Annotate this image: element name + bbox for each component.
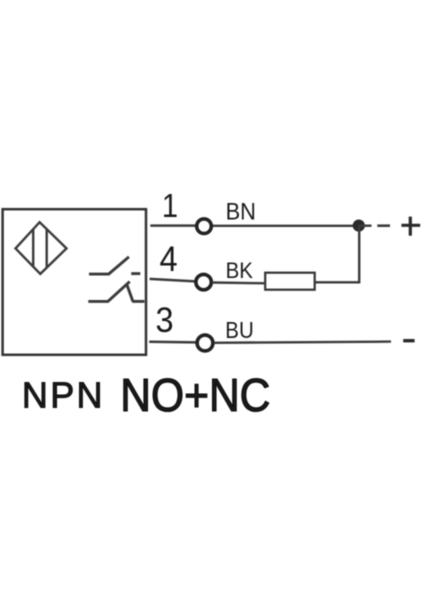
- svg-text:NPN: NPN: [22, 374, 105, 415]
- plus terminal: [401, 217, 420, 236]
- wire stub after junction: [359, 224, 372, 226]
- wire pin 3 lead: [149, 340, 196, 343]
- svg-text:4: 4: [160, 240, 178, 279]
- wire junction drop to resistor: [315, 226, 359, 283]
- NC contact switch: [88, 282, 144, 302]
- sensor box U1: [3, 209, 146, 355]
- wire BK to resistor: [212, 281, 265, 284]
- svg-text:NO+NC: NO+NC: [120, 370, 270, 421]
- wire BN: [213, 225, 359, 227]
- svg-text:BK: BK: [226, 258, 254, 283]
- svg-text:3: 3: [156, 301, 174, 340]
- wire BU: [214, 342, 391, 343]
- svg-text:BU: BU: [225, 317, 253, 343]
- junction dot: [353, 220, 365, 232]
- sensor symbol left bar: [32, 229, 34, 267]
- svg-text:BN: BN: [226, 197, 256, 224]
- svg-text:1: 1: [162, 187, 178, 224]
- minus terminal: [403, 339, 414, 342]
- wire pin 1 lead: [150, 224, 195, 227]
- resistor load R: [265, 273, 315, 290]
- terminal circle pin 3: [197, 335, 213, 351]
- wire pin 4 lead: [150, 279, 196, 282]
- sensor symbol right bar: [46, 229, 48, 267]
- wire dash to plus: [377, 224, 390, 227]
- terminal circle pin 1: [197, 219, 212, 234]
- NO contact switch: [89, 257, 140, 275]
- sensor symbol diamond: [16, 222, 67, 274]
- terminal circle pin 4: [196, 274, 211, 289]
